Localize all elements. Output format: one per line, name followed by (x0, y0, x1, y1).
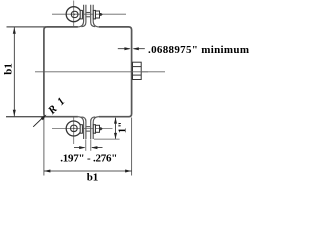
svg-text:b1: b1 (87, 172, 99, 184)
svg-text:.0688975" minimum: .0688975" minimum (148, 44, 249, 56)
svg-text:.197" - .276": .197" - .276" (60, 152, 117, 164)
svg-text:1": 1" (117, 122, 129, 134)
svg-text:b1: b1 (2, 63, 14, 75)
